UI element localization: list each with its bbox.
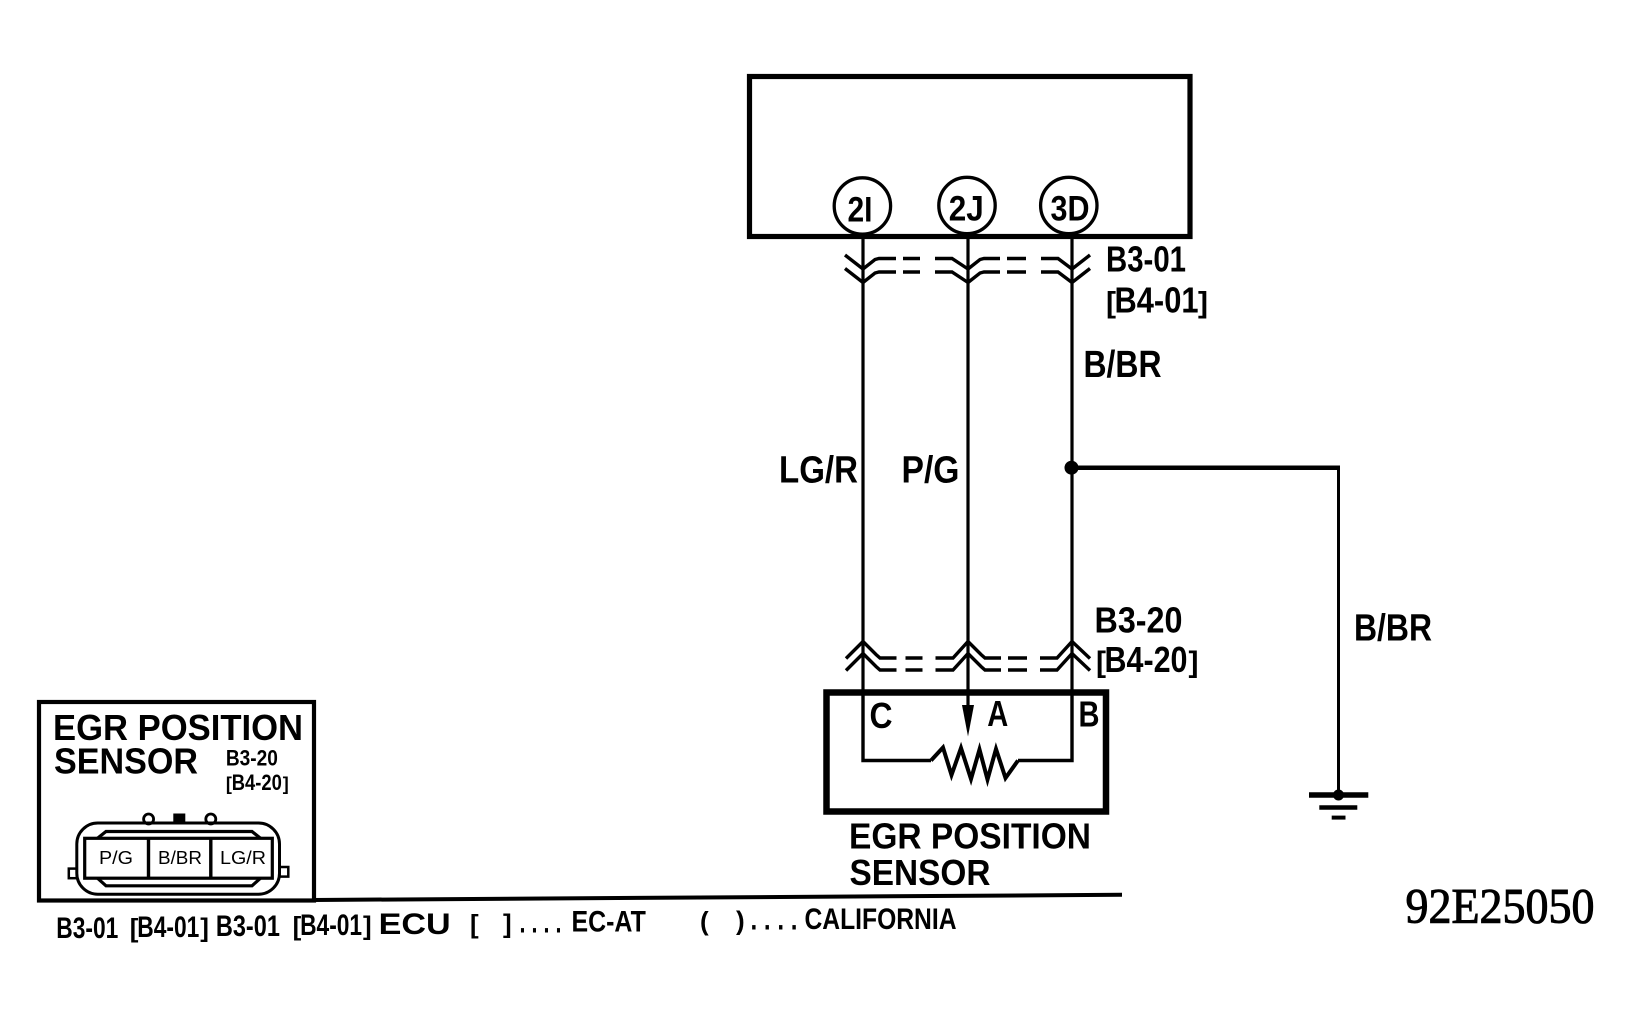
connector pin row [85,838,273,878]
svg-text:. . . .: . . . . [520,906,562,939]
connector top tab 3 [206,814,216,824]
wire LG/R vertical [861,238,864,691]
svg-text:]: ] [1189,646,1199,679]
svg-text:B/BR: B/BR [158,848,202,868]
svg-text:SENSOR: SENSOR [850,852,991,893]
svg-text:P/G: P/G [99,848,133,868]
svg-text:B/BR: B/BR [1084,344,1162,386]
svg-text:92E25050: 92E25050 [1406,878,1595,934]
connector side tab left [69,869,77,879]
terminal 2J [939,177,995,233]
svg-text:B/BR: B/BR [1354,608,1432,650]
wire B/BR right vertical [1337,468,1340,795]
label [B4-20] [1096,639,1199,680]
svg-text:A: A [987,693,1008,734]
svg-text:]: ] [503,909,512,939]
svg-text:P/G: P/G [902,450,960,492]
svg-text:B: B [1079,694,1100,735]
connector B3-01 chevrons row2 [845,269,1090,283]
svg-text:B4-01: B4-01 [1115,280,1199,321]
legend text row [56,903,956,945]
sensor internal C lead [863,691,931,761]
connector inner octagon [98,832,261,886]
terminal 2I [834,178,890,234]
connector B3-01 chevrons row1 [845,255,1090,269]
svg-text:(: ( [700,906,709,936]
connector drawing outer shell [77,823,280,894]
connector top tab 1 [144,814,154,824]
svg-text:3D: 3D [1051,190,1090,229]
svg-text:B4-20: B4-20 [1105,639,1188,680]
svg-text:C: C [870,695,893,736]
wire B/BR vertical [1070,238,1073,691]
svg-text:]: ] [1198,287,1208,320]
svg-text:. . . .: . . . . [751,904,798,937]
svg-text:]: ] [200,912,209,942]
baseline rule [314,895,1122,900]
EGR position sensor box [827,693,1107,812]
svg-text:]: ] [283,774,289,794]
wiper arrowhead [962,705,974,737]
svg-text:B3-01: B3-01 [56,912,118,945]
connector side tab right [280,867,289,877]
connector B3-20 chevrons row2 [846,654,1090,671]
junction node [1065,461,1079,475]
svg-text:): ) [736,906,745,936]
svg-text:LG/R: LG/R [220,848,266,868]
svg-text:SENSOR: SENSOR [54,741,198,782]
connector B3-20 chevrons row1 [846,642,1090,659]
resistor zigzag [931,748,1018,780]
wire jumper horizontal [1072,465,1340,470]
legend ref [B4-01] (1) [130,911,209,944]
svg-text:B4-20: B4-20 [232,770,282,795]
ground symbol [1309,790,1368,818]
label [B4-01] [1106,280,1208,321]
svg-text:B3-01: B3-01 [216,910,280,943]
wiper arrow wire [966,691,969,712]
svg-text:]: ] [363,910,372,940]
pin separator 1 [147,838,150,878]
svg-text:2J: 2J [949,190,984,229]
terminal 3D [1041,177,1097,233]
connector top tab 2 (filled) [173,814,185,825]
svg-text:EGR POSITION: EGR POSITION [849,816,1091,857]
svg-text:2I: 2I [848,191,873,230]
legend ref [B4-01] (2) [293,909,372,942]
svg-text:B4-01: B4-01 [300,909,362,942]
svg-text:B3-01: B3-01 [1106,239,1186,280]
sensor internal B lead [1018,691,1072,761]
svg-text:B4-01: B4-01 [137,911,199,944]
svg-text:ECU: ECU [379,908,451,941]
svg-text:LG/R: LG/R [779,450,858,492]
legend box ref [B4-20] [226,770,289,795]
legend box (left) [39,702,314,901]
pin separator 2 [209,838,212,878]
ECU box [750,77,1191,237]
svg-text:B3-20: B3-20 [226,745,278,770]
svg-text:CALIFORNIA: CALIFORNIA [805,903,957,936]
svg-text:[: [ [470,909,479,939]
svg-text:EC-AT: EC-AT [572,906,646,939]
svg-text:B3-20: B3-20 [1095,600,1183,641]
wire P/G vertical [966,238,969,691]
